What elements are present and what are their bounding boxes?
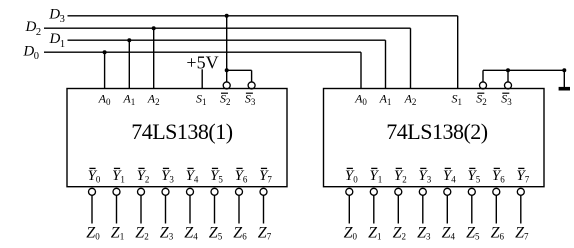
U1 pin Y4bar xyxy=(186,168,199,184)
U1 output Y1bar bubble xyxy=(113,188,120,195)
U2 pin Y0bar xyxy=(345,168,358,184)
svg-text:74LS138(2): 74LS138(2) xyxy=(386,119,488,144)
wire S2bar to S3bar xyxy=(227,69,252,71)
U1 pin S3bar xyxy=(245,91,256,107)
ground xyxy=(559,87,570,91)
U1 output Y5bar bubble xyxy=(211,188,218,195)
svg-text:D: D xyxy=(49,31,61,47)
U2 output Y0bar bubble xyxy=(346,188,353,195)
svg-text:2: 2 xyxy=(36,27,41,38)
wire +5V to U1 S1 xyxy=(201,69,203,88)
U2 output Y3bar bubble xyxy=(419,188,426,195)
junction S2bar/S3bar tie xyxy=(225,68,229,72)
U1 output Y4bar bubble xyxy=(187,188,194,195)
wire D1 bus xyxy=(68,39,386,41)
U1 output Y3bar bubble xyxy=(162,188,169,195)
U1 output Y6bar bubble xyxy=(236,188,243,195)
wire to ground bar xyxy=(563,70,565,87)
decoder U1 74LS138(1) body xyxy=(67,89,287,187)
U2 output Y5bar bubble xyxy=(468,188,475,195)
U2 pin Y7bar xyxy=(516,168,529,184)
U1 pin Y2bar xyxy=(137,168,150,184)
U2 output Y7bar bubble xyxy=(517,188,524,195)
junction U2 S3bar xyxy=(506,68,510,72)
svg-text:0: 0 xyxy=(34,51,39,62)
wire U1 Y7bar to Z xyxy=(263,195,265,223)
node D1 label xyxy=(49,31,66,50)
wire U2 Y0bar to Z xyxy=(348,195,350,223)
wire D3 to U1 S2bar xyxy=(226,16,228,82)
wire down to U2 S3bar xyxy=(507,70,509,82)
decoder U2 74LS138(2) body xyxy=(324,89,545,187)
U1 pin Y1bar xyxy=(112,168,125,184)
wire U2 Y3bar to Z xyxy=(422,195,424,223)
U1 output Y2bar bubble xyxy=(138,188,145,195)
node D2 label xyxy=(25,19,42,38)
wire U1 Y5bar to Z xyxy=(214,195,216,223)
wire U2 S2bar/S3bar to ground xyxy=(483,69,564,71)
U1 S2bar inversion bubble xyxy=(223,82,230,89)
wire down to U1 S3bar xyxy=(251,70,253,82)
svg-text:1: 1 xyxy=(60,39,65,50)
wire D3 bus xyxy=(68,15,458,17)
wire U2 Y2bar to Z xyxy=(397,195,399,223)
wire U2 Y6bar to Z xyxy=(495,195,497,223)
node D0 label xyxy=(22,43,39,62)
U2 pin Y2bar xyxy=(394,168,407,184)
wire down to U2 S2bar xyxy=(482,70,484,82)
U1 pin Y6bar xyxy=(235,168,248,184)
wire U1 Y6bar to Z xyxy=(238,195,240,223)
U1 pin Y5bar xyxy=(210,168,223,184)
U2 pin S3bar xyxy=(501,91,512,107)
U2 S2bar inversion bubble xyxy=(480,82,487,89)
wire D0 bus xyxy=(44,51,361,53)
wire U1 Y1bar to Z xyxy=(116,195,118,223)
U2 pin Y5bar xyxy=(467,168,480,184)
U1 pin Y3bar xyxy=(161,168,174,184)
wire U1 Y3bar to Z xyxy=(165,195,167,223)
U1 output Y0bar bubble xyxy=(89,188,96,195)
wire U2 Y7bar to Z xyxy=(520,195,522,223)
U2 output Y6bar bubble xyxy=(493,188,500,195)
wire D1 to U1 A1 xyxy=(128,40,130,88)
wire D2 to U1 A2 xyxy=(153,28,155,88)
svg-text:D: D xyxy=(25,19,37,35)
U2 pin Y6bar xyxy=(492,168,505,184)
wire U2 Y5bar to Z xyxy=(471,195,473,223)
U2 pin Y3bar xyxy=(418,168,431,184)
U1 pin Y7bar xyxy=(259,168,272,184)
svg-text:D: D xyxy=(22,43,34,59)
junction D1/A1 xyxy=(127,38,131,42)
junction D3 tap xyxy=(225,14,229,18)
wire D0 to U1 A0 xyxy=(104,52,106,88)
U1 pin S2bar xyxy=(220,91,231,107)
U2 output Y2bar bubble xyxy=(395,188,402,195)
U2 output Y4bar bubble xyxy=(444,188,451,195)
wire D0 to U2 A0 xyxy=(360,52,362,88)
wire U2 Y1bar to Z xyxy=(373,195,375,223)
junction D0/A0 xyxy=(103,50,107,54)
U1 S3bar inversion bubble xyxy=(248,82,255,89)
svg-text:3: 3 xyxy=(60,14,65,25)
wire D2 bus xyxy=(44,27,411,29)
U2 pin Y4bar xyxy=(443,168,456,184)
wire U1 Y4bar to Z xyxy=(189,195,191,223)
U2 output Y1bar bubble xyxy=(370,188,377,195)
junction ground corner xyxy=(562,68,566,72)
U1 pin Y0bar xyxy=(88,168,101,184)
U1 output Y7bar bubble xyxy=(260,188,267,195)
wire D3 to U2 S1 xyxy=(457,16,459,89)
svg-text:74LS138(1): 74LS138(1) xyxy=(131,119,233,144)
wire U1 Y2bar to Z xyxy=(140,195,142,223)
wire D1 to U2 A1 xyxy=(385,40,387,88)
wire U1 Y0bar to Z xyxy=(91,195,93,223)
wire U2 Y4bar to Z xyxy=(446,195,448,223)
U2 S3bar inversion bubble xyxy=(505,82,512,89)
U2 pin Y1bar xyxy=(369,168,382,184)
U2 pin S2bar xyxy=(476,91,487,107)
node D3 label xyxy=(48,7,65,26)
junction D2/A2 xyxy=(152,26,156,30)
wire D2 to U2 A2 xyxy=(410,28,412,88)
svg-text:D: D xyxy=(48,7,60,23)
